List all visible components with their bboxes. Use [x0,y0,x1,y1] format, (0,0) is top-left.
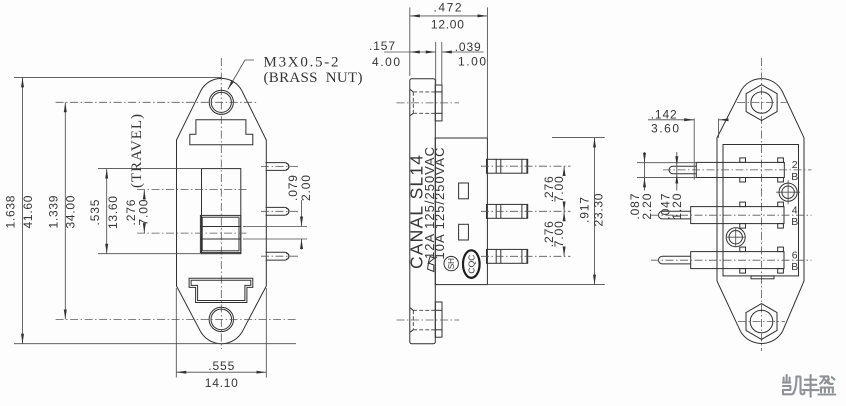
front view top cap [190,120,253,145]
side view molded body [435,138,487,285]
svg-text:.039: .039 [455,40,481,54]
side view terminal pin 3 [487,249,528,263]
svg-text:7.00: 7.00 [552,176,566,202]
front view bottom hole centerline [56,318,296,320]
rear view lower rivet [726,228,745,247]
front view slider slot [202,169,241,254]
side view bottom bushing [435,302,442,337]
front view top hole centerline [56,101,258,103]
svg-text:12.00: 12.00 [431,18,464,32]
rear view bottom notch [751,276,774,279]
svg-text:1.20: 1.20 [670,193,684,219]
svg-text:CQC: CQC [467,255,477,274]
side view top bushing [435,85,442,121]
front view slider knob [200,215,240,252]
svg-text:(BRASS NUT): (BRASS NUT) [264,70,363,86]
svg-text:B: B [791,216,798,228]
side view top hidden nut [410,89,436,116]
svg-text:.157: .157 [369,39,395,53]
svg-text:3.60: 3.60 [651,121,679,135]
side view terminal pin 2 [487,204,528,218]
rear view upper rivet [776,180,800,204]
travel lower centerline [137,232,247,234]
svg-text:34.00: 34.00 [63,195,77,228]
svg-text:7.00: 7.00 [552,221,566,247]
side pin 2 centerline [481,210,571,212]
dimension .142 3.60 pin offset [648,108,726,180]
pin 1 centerline [261,166,301,168]
rear pin 2 centerline [663,169,812,171]
side view top bushing centerline [397,102,460,104]
rear bottom hex centerline [738,321,785,323]
rear view body outline [717,79,804,344]
marking CANAL SL14 [407,155,427,269]
svg-text:.917: .917 [577,197,591,223]
svg-text:14.10: 14.10 [205,376,238,390]
label 4 B [791,204,798,228]
pin 2 centerline [261,210,301,212]
rear view top hex nut [746,85,777,121]
label (TRAVEL) [129,114,145,188]
svg-text:2.00: 2.00 [299,175,313,201]
dimension .535 13.60 slot length [88,169,202,254]
rear pin 4 centerline [651,214,812,216]
dimension .087 2.20 lug width [628,152,696,220]
rear view pin 2 [669,158,784,182]
svg-text:.535: .535 [88,199,102,225]
front view terminal pin 3 [266,252,289,260]
svg-text:(TRAVEL): (TRAVEL) [129,114,145,188]
travel upper centerline [137,189,247,191]
rear pin 6 centerline [651,259,812,261]
svg-text:.142: .142 [651,108,677,122]
label 6 B [791,249,798,273]
svg-text:.472: .472 [434,1,462,15]
approval pennant symbol [428,257,435,272]
dimension .276 7.00 travel [124,190,150,234]
watermark kai feng ying [783,375,835,397]
svg-text:41.60: 41.60 [21,195,35,228]
side pin 1 centerline [481,165,571,167]
svg-text:4.00: 4.00 [372,55,400,69]
extension line bottom of body [14,343,296,345]
dimension 1.638 41.60 overall height [3,77,35,343]
front view body outline [177,78,267,343]
front view top mounting hole [209,90,233,114]
svg-text:6: 6 [792,249,798,261]
svg-text:2: 2 [792,159,798,171]
approval SH circle logo [444,256,458,270]
svg-text:M3X0.5-2: M3X0.5-2 [264,55,339,71]
side view body vent rectangles [459,183,469,240]
svg-text:10A 125/250VAC: 10A 125/250VAC [432,148,447,260]
dimension .079 2.00 knob plate [243,175,313,250]
svg-text:13.60: 13.60 [106,196,120,229]
side view bottom bushing centerline [397,319,460,321]
dimension .472 12.00 overall depth [410,1,488,138]
side view terminal pin 1 [487,159,528,173]
front view vertical centerline [220,58,222,349]
svg-text:.079: .079 [286,175,300,201]
dimension .276 7.00 pin pitch lower [542,211,566,256]
marking 10A 125/250VAC [432,148,447,260]
svg-text:SH: SH [447,258,456,269]
rear view bottom hex nut [746,304,777,340]
rear view pin 6 [659,247,785,273]
rear view inner rectangle [723,145,799,276]
svg-text:1.00: 1.00 [458,55,486,69]
approval CQC oval logo [463,250,480,278]
rear view vertical centerline [761,58,763,351]
rear top hex centerline [737,102,787,104]
svg-text:B: B [791,261,798,273]
side view bottom hidden nut [410,308,436,333]
side view mounting plate [410,79,436,344]
svg-text:1.339: 1.339 [46,195,60,228]
svg-text:1.638: 1.638 [3,195,17,228]
marking 12A 125/250VAC [422,147,437,259]
front view bottom mounting hole [209,307,233,331]
svg-text:7.00: 7.00 [137,199,151,225]
extension line top of body [14,76,222,78]
dimension 1.339 34.00 hole spacing [46,102,77,319]
svg-text:.555: .555 [208,359,234,373]
rear view pin 4 [659,202,784,228]
front view terminal pin 2 [266,207,290,215]
dimension .917 23.30 body height [487,138,605,285]
leader M3X0.5-2 brass nut [228,55,363,90]
dimension .157 4.00 plate thickness and .039 1.00 bushing [369,39,486,85]
label 2 B [791,159,798,183]
pin 3 centerline [261,255,301,257]
front view terminal pin 1 [266,163,290,171]
dimension .276 7.00 pin pitch upper [542,166,566,211]
dimension .047 1.20 pin diameter [658,152,684,220]
svg-text:23.30: 23.30 [591,193,605,226]
svg-text:4: 4 [792,204,798,216]
dimension .555 14.10 body width [176,288,266,390]
side pin 3 centerline [481,255,571,257]
svg-text:2.20: 2.20 [640,193,654,219]
front view bottom cap [189,278,253,302]
svg-text:B: B [791,171,798,183]
